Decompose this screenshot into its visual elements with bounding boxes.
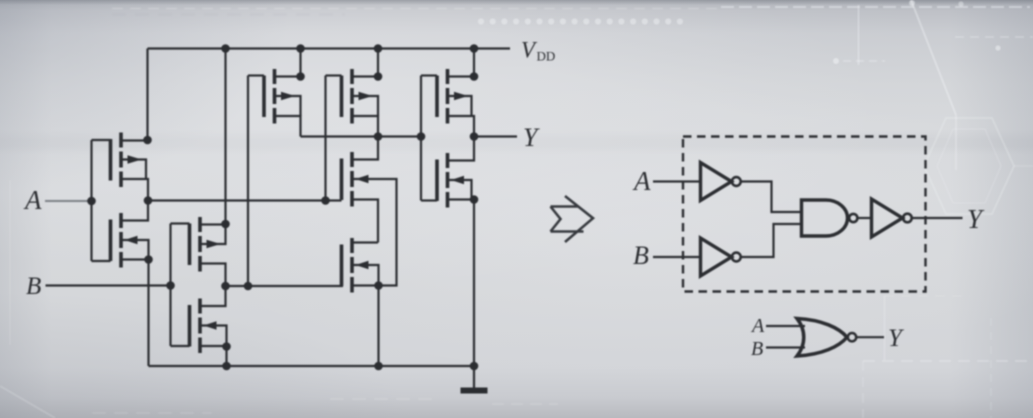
node N2 source junction [222, 342, 231, 351]
wire inverter-A gate bracket [90, 140, 92, 261]
wire ground rail [149, 365, 475, 367]
node A gate junction [87, 197, 96, 206]
NAND gate U3 [802, 200, 848, 236]
wire output Y [474, 135, 517, 137]
wire P5 body tie [449, 96, 472, 116]
node Abar-P4 junction [321, 196, 330, 205]
node ground right junction [470, 362, 479, 371]
wire NAND output node [301, 135, 422, 137]
transistor P2 (PMOS inv-B) [190, 217, 221, 272]
wire inverter-B gate bracket [169, 224, 171, 347]
node P1 drain corner [143, 136, 152, 145]
wire P2 source to output [200, 264, 226, 287]
wire N2 source down to ground [225, 346, 227, 366]
wire P2 drain to VDD riser [200, 223, 226, 225]
node N1 source junction [144, 255, 153, 264]
wire N1 body tie [122, 240, 149, 260]
node P5 drain corner [470, 72, 479, 81]
transistor P1 (PMOS inv-A) [111, 133, 142, 188]
wire riser VDD to P3 drain [299, 49, 301, 77]
wire P4 drain to VDD [352, 75, 378, 77]
wire VDD rail left drop to P1 [146, 49, 148, 141]
wire N5 body tie [449, 180, 472, 200]
svg-text:A: A [750, 315, 765, 337]
wire N3 drain up to NAND output [352, 137, 378, 160]
VDD rail wire [148, 47, 511, 49]
node inverter-A output Abar [144, 196, 153, 205]
wire P5 drain riser [473, 49, 475, 77]
node P2 drain junction [221, 220, 230, 229]
node inverter-B output Bbar [221, 282, 230, 291]
wire P5 source to Y [448, 116, 475, 137]
wire output-inverter gate bracket [420, 76, 422, 201]
svg-text:B: B [633, 241, 649, 270]
node NAND output P4/N3 junction [374, 132, 383, 141]
wire NOR to Y [857, 336, 885, 338]
wire P1 drain to VDD [121, 139, 148, 141]
wire P3 source to NAND output [275, 116, 301, 137]
node ground N2 junction [222, 362, 231, 371]
node N5 source junction [470, 195, 479, 204]
svg-text:Y: Y [967, 204, 985, 234]
wire N1 source [121, 258, 149, 260]
transistor P3 (PMOS NAND) [264, 69, 295, 124]
wire N5 source [448, 198, 475, 200]
wire U4 to Y [912, 217, 963, 219]
wire node Bbar to NAND gates [226, 285, 344, 287]
wire N4 source [352, 284, 379, 286]
wire N5 drain to Y [448, 137, 475, 161]
wire N4 body tie [353, 265, 379, 286]
svg-text:Y: Y [888, 325, 905, 352]
node VDD-P5 junction [470, 44, 479, 53]
svg-text:Y: Y [523, 123, 540, 152]
wire N3 source to N4 drain [352, 200, 378, 243]
transistor N1 (NMOS inv-A) [111, 213, 138, 268]
inverter U4 [872, 199, 903, 237]
node P3 drain corner [296, 72, 305, 81]
transistor N3 (NMOS NAND upper) [342, 152, 369, 207]
transistor N4 (NMOS NAND lower) [342, 238, 369, 293]
wire node Abar to NAND gates [148, 199, 342, 201]
wire N2 body tie [201, 326, 227, 347]
wire P1 body tie [122, 160, 146, 180]
svg-text:B: B [751, 338, 763, 360]
svg-text:V: V [521, 38, 538, 63]
node Bbar to P3 riser junction [244, 282, 253, 291]
svg-text:A: A [23, 185, 42, 215]
wire P3 drain to VDD [275, 75, 301, 77]
inverter U2 [701, 238, 732, 276]
wire N4 drain [352, 241, 378, 243]
wire A to inverter U1 [653, 180, 701, 182]
inverter U1 [701, 163, 732, 201]
transistor P5 (PMOS out-inv) [437, 69, 468, 124]
svg-text:DD: DD [537, 49, 556, 64]
transistor N2 (NMOS inv-B) [190, 299, 217, 354]
node N4 source junction [374, 281, 383, 290]
node NAND output to inverter gate [417, 132, 426, 141]
wire N5 source down to ground [473, 200, 475, 367]
wire N4 source down to ground [377, 286, 379, 367]
node VDD-P4 junction [374, 44, 383, 53]
wire U2 to NAND [741, 224, 802, 257]
svg-text:B: B [26, 273, 41, 300]
node B gate junction [166, 281, 175, 290]
wire P1 source to output [121, 179, 148, 201]
wire input A [45, 200, 92, 202]
NOR gate U5 [797, 319, 847, 357]
ground symbol [473, 366, 475, 388]
node VDD-P2 riser junction [221, 44, 230, 53]
wire P4 body tie [353, 96, 378, 116]
wire riser VDD to P2 drain [224, 49, 226, 225]
node P4 drain corner [374, 72, 383, 81]
wire P5 drain to VDD [448, 75, 475, 77]
dashed box [683, 137, 926, 292]
wire N2 source [200, 345, 227, 347]
svg-text:A: A [632, 166, 651, 196]
wire A into NOR [766, 325, 805, 327]
wire N1 source down to ground [147, 260, 149, 367]
wire B into NOR [766, 346, 805, 348]
wire N2 drain to output [200, 286, 226, 306]
wire N1 drain to output [121, 201, 148, 221]
wire N3 body tie long [353, 179, 397, 286]
wire riser VDD to P4 drain [377, 49, 379, 77]
wire NAND to inverter U4 [857, 217, 871, 219]
wire P4 source to NAND output [352, 116, 378, 137]
wire P2 body tie up [201, 224, 226, 244]
node VDD-P3 junction [296, 44, 305, 53]
node ground N4 junction [374, 362, 383, 371]
arrow implies symbol [551, 196, 594, 242]
wire U1 to NAND [741, 182, 802, 213]
node output Y [470, 132, 479, 141]
wire P3 body tie [276, 96, 301, 116]
wire input B [46, 284, 171, 286]
wire riser Bbar to P3 gate [247, 76, 249, 287]
wire riser Abar to P4 gate [324, 76, 326, 201]
transistor P4 (PMOS NAND) [342, 69, 373, 124]
transistor N5 (NMOS out-inv) [437, 153, 464, 208]
wire B to inverter U2 [653, 256, 701, 258]
